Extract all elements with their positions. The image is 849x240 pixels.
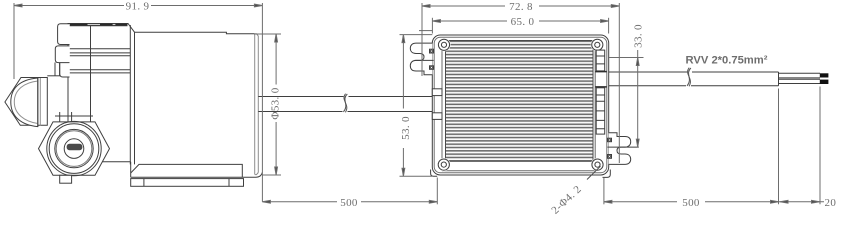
pump head right flange — [130, 25, 134, 164]
svg-text:72. 8: 72. 8 — [509, 1, 533, 13]
lower port concentric circles — [47, 121, 101, 175]
box bottom-right foot — [603, 170, 611, 178]
upper port neck — [47, 63, 60, 76]
svg-text:RVV 2*0.75mm²: RVV 2*0.75mm² — [686, 55, 768, 67]
lower port neck — [55, 112, 93, 122]
head collar above lower hexagon — [60, 59, 70, 78]
corner screw bottom-left — [437, 158, 450, 171]
heatsink fins — [446, 41, 594, 162]
svg-text:500: 500 — [340, 197, 358, 209]
pump head vertical seam — [90, 26, 92, 122]
right cable break symbol — [687, 68, 691, 87]
left cable break symbol — [343, 94, 347, 113]
controller box inner side lines — [442, 40, 595, 171]
right edge terminal column lower — [596, 88, 605, 134]
dimension 33.0 — [609, 50, 644, 147]
right cable exit dark bars — [595, 72, 607, 87]
dimension phi53.0 — [254, 34, 281, 175]
pump head horizontal rib lines — [70, 49, 131, 73]
lower port hexagon (front view) — [39, 122, 110, 175]
head left tab 2 — [55, 46, 69, 63]
left spring clip — [410, 43, 433, 75]
box bottom-left foot — [431, 170, 438, 177]
motor body — [135, 32, 255, 34]
right edge terminal column upper — [596, 50, 605, 71]
dimension 91.9 — [14, 3, 262, 202]
controller box outer shell — [432, 35, 608, 175]
tab below lower hexagon — [60, 175, 72, 183]
corner screw top-right — [591, 38, 604, 51]
corner screw top-left — [437, 38, 450, 51]
head left tab 1 — [58, 24, 70, 45]
right cable — [609, 72, 779, 86]
stripped wires — [779, 73, 821, 83]
pump head body — [68, 24, 135, 123]
pump base bracket — [95, 162, 262, 187]
dimension 72.8 — [422, 3, 619, 163]
svg-text:91. 9: 91. 9 — [126, 1, 150, 13]
motor rear end cap — [255, 34, 259, 175]
lower port slot — [67, 144, 83, 150]
right spring clip — [608, 133, 631, 165]
left cable entry blocks — [432, 89, 442, 120]
dimension 20 — [779, 87, 825, 205]
dimension 500 left — [262, 178, 437, 205]
upper port nut profile (side view) — [5, 78, 47, 126]
dimension 500 right — [604, 178, 779, 205]
label 2-phi4.2 with leader — [587, 166, 601, 179]
svg-text:20: 20 — [825, 197, 837, 209]
wire tinned tips — [820, 73, 829, 84]
svg-text:Φ53. 0: Φ53. 0 — [270, 87, 282, 119]
right clip middle bar with 33.0 extension — [608, 146, 639, 148]
left cable — [258, 97, 432, 112]
svg-text:65. 0: 65. 0 — [511, 16, 535, 28]
svg-text:500: 500 — [682, 197, 700, 209]
svg-text:33. 0: 33. 0 — [632, 24, 644, 48]
upper port dome cap — [11, 78, 41, 127]
controller box second shell line — [434, 37, 607, 172]
dimension 65.0 — [432, 18, 608, 34]
corner screw bottom-right — [591, 158, 604, 171]
dimension 53.0 (box height) — [400, 31, 433, 177]
svg-text:53. 0: 53. 0 — [400, 116, 412, 140]
